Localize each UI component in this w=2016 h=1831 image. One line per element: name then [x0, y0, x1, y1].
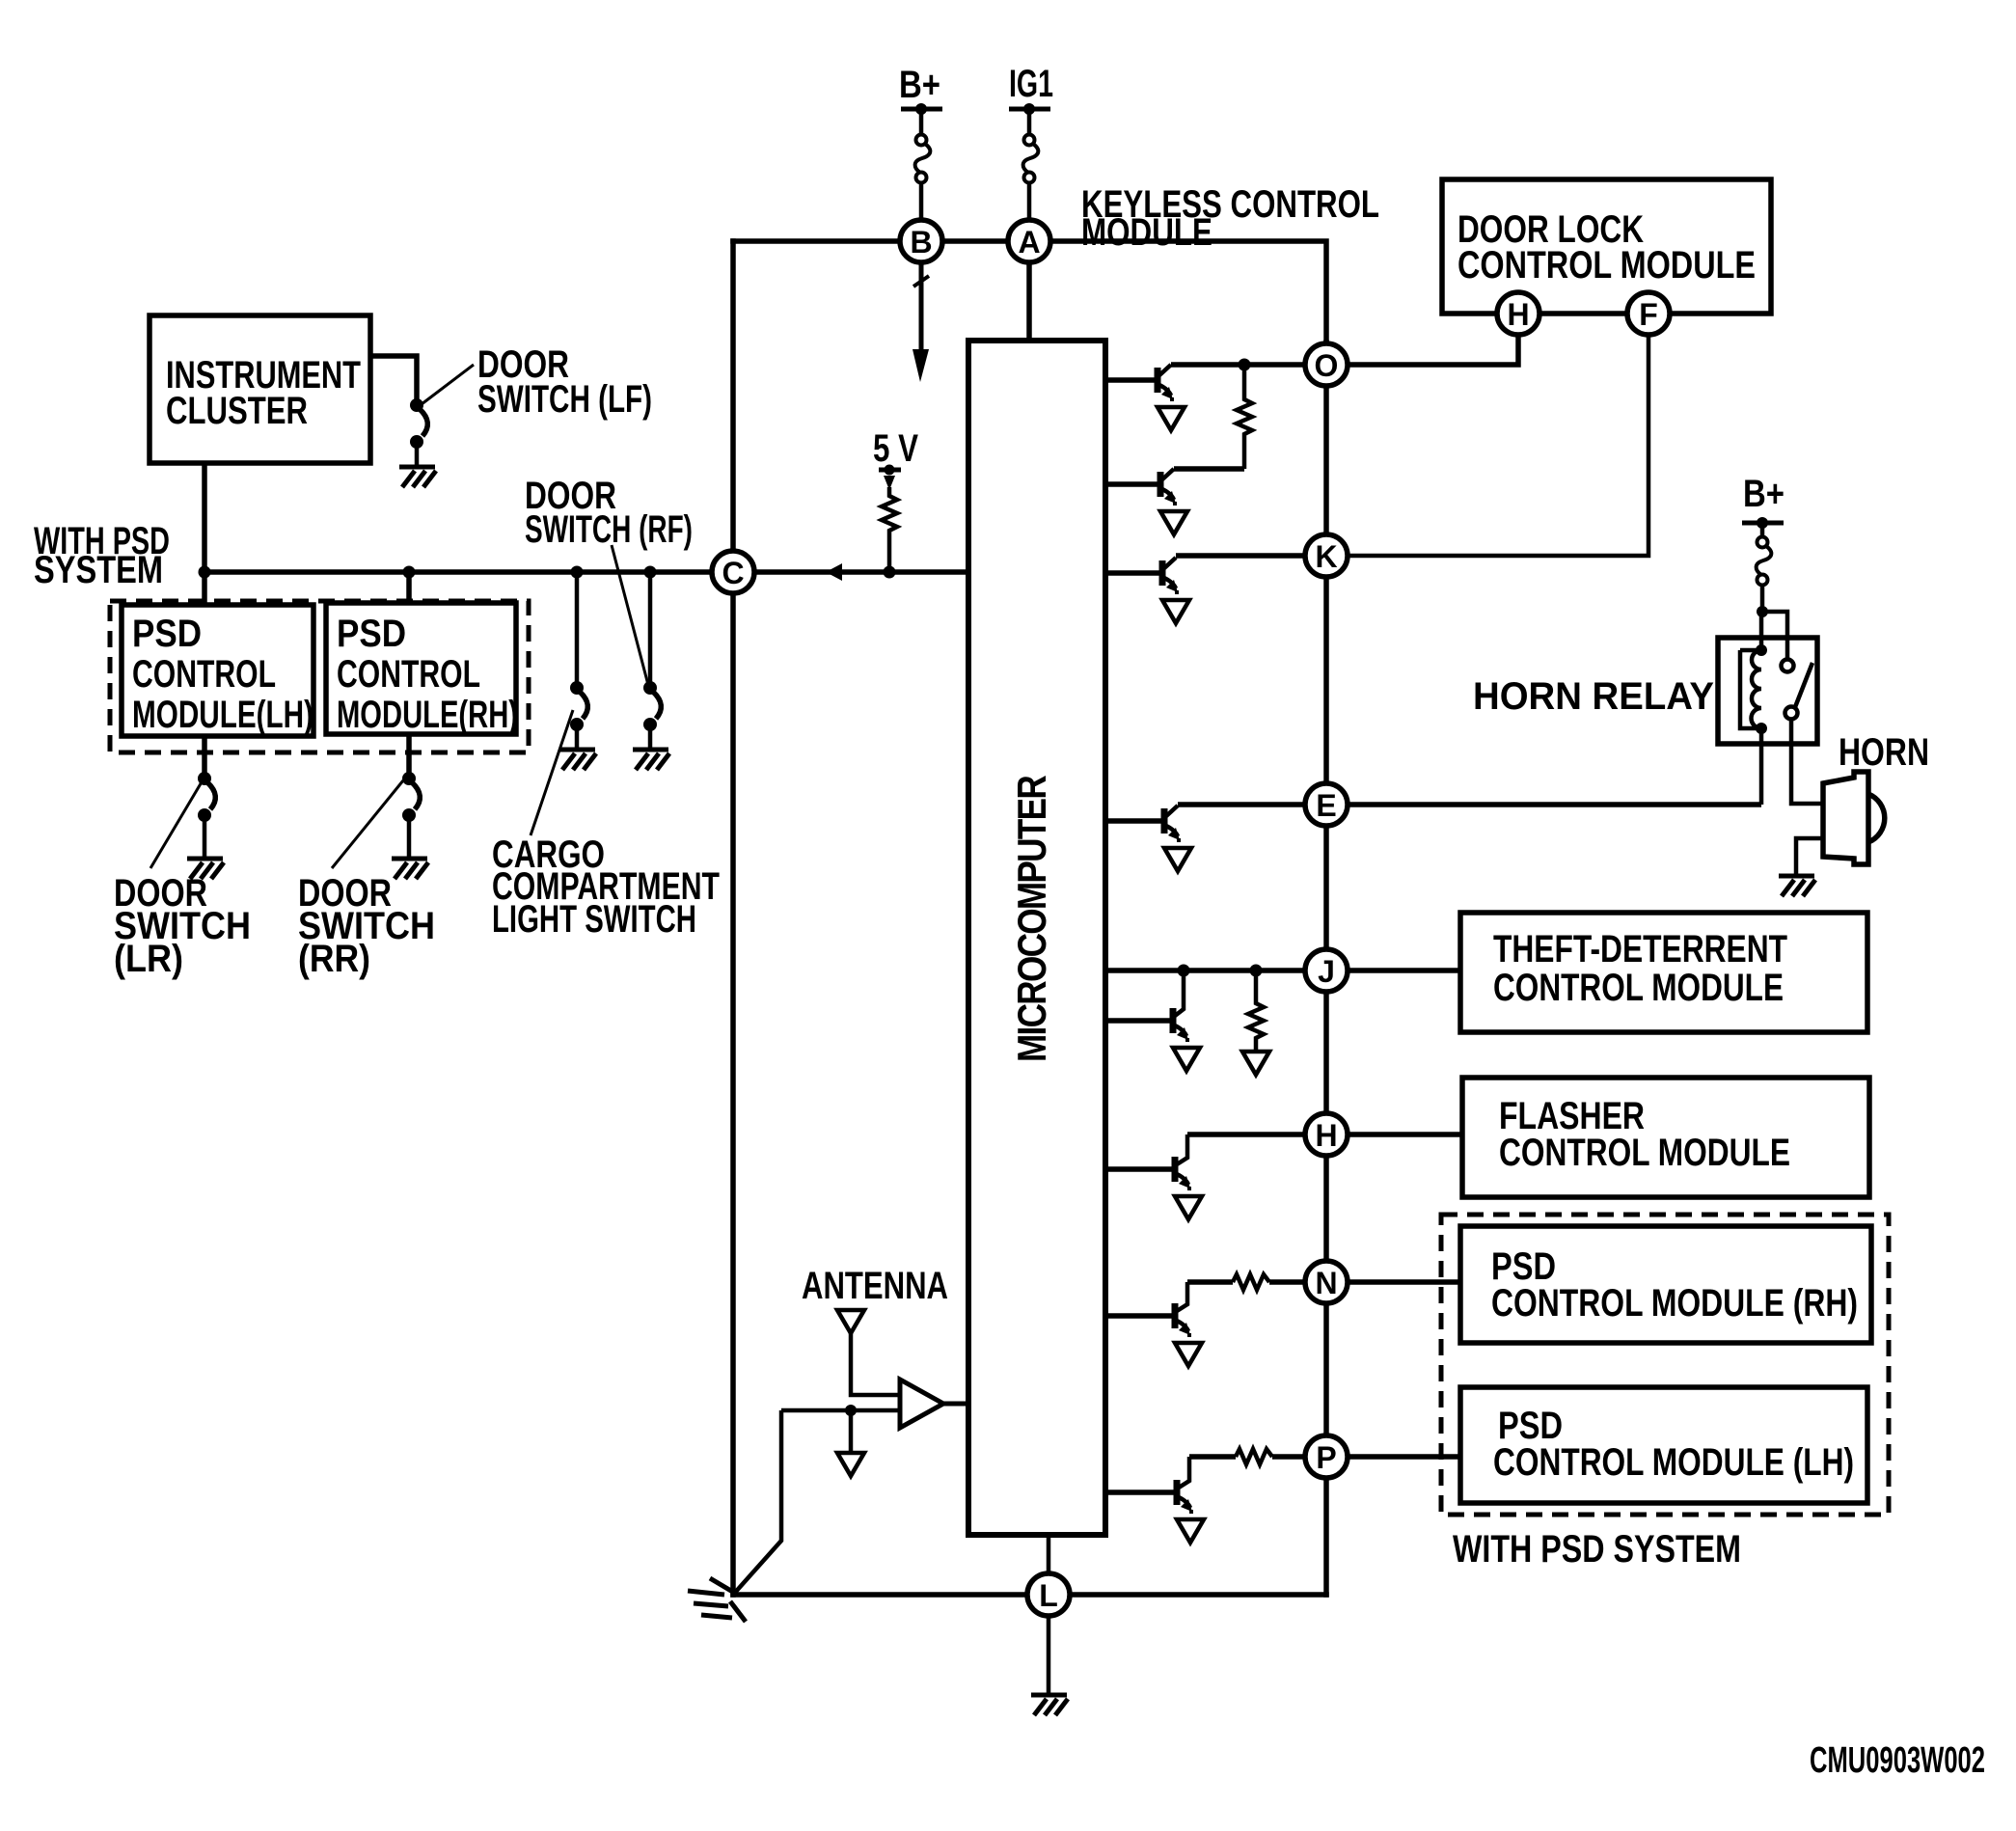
- node J: [1305, 949, 1348, 992]
- node O: [1305, 343, 1348, 386]
- wire: fuse to node B: [919, 182, 924, 241]
- junction dot J line right: [1250, 965, 1263, 977]
- wire: E row line to relay coil: [1326, 802, 1761, 807]
- wire: Q2 collector to R1 bottom: [1174, 466, 1244, 472]
- relay coil L1: [1740, 650, 1761, 728]
- flasher control module box: [1462, 1078, 1869, 1197]
- svg-text:IG1: IG1: [1009, 63, 1053, 105]
- junction dot C line (5V): [884, 566, 896, 579]
- wire: P row to PSD LH module: [1326, 1454, 1460, 1460]
- signal ground (R2): [1242, 1052, 1269, 1075]
- wire: antenna to amplifier: [851, 1333, 900, 1395]
- svg-text:L: L: [1039, 1578, 1058, 1613]
- junction dot C line (instrument cluster): [199, 566, 211, 579]
- direction arrow on C line: [826, 563, 842, 581]
- microcomputer U1 box: [968, 341, 1105, 1535]
- svg-text:(RR): (RR): [298, 938, 370, 980]
- 5 V terminal: [879, 468, 901, 473]
- wire: Q7 collector to resistor R3: [1187, 1279, 1233, 1285]
- relay switch contacts: [1782, 660, 1794, 672]
- PSD control module RH box (right): [1460, 1226, 1871, 1343]
- junction dot C line (PSD RH): [403, 566, 416, 579]
- resistor R2 (J row pulldown): [1248, 970, 1264, 1052]
- wire: Q6 collector to node H: [1187, 1132, 1304, 1137]
- svg-text:CONTROL MODULE (RH): CONTROL MODULE (RH): [1491, 1282, 1858, 1325]
- wire: horn to ground: [1796, 838, 1823, 874]
- resistor R5 (5V pull-up): [882, 487, 897, 572]
- transistor Q1 (O row, upper): [1105, 365, 1173, 401]
- ground (node L): [1031, 1695, 1068, 1715]
- signal ground (Q2 emitter): [1160, 511, 1187, 534]
- wire: input stub to signal ground: [849, 1410, 854, 1453]
- svg-text:(LR): (LR): [114, 938, 183, 980]
- svg-text:F: F: [1639, 297, 1658, 332]
- wire: K row to door lock F: [1326, 314, 1648, 556]
- node C: [712, 551, 754, 593]
- junction dot C line (cargo switch): [571, 566, 584, 579]
- svg-text:CONTROL MODULE: CONTROL MODULE: [1458, 244, 1756, 287]
- wire: node B output arrow down: [919, 262, 924, 349]
- svg-text:CONTROL MODULE: CONTROL MODULE: [1499, 1132, 1790, 1174]
- B+ terminal (top): [901, 107, 942, 112]
- wire: C line into PSD RH: [406, 572, 412, 603]
- svg-text:WITH PSD SYSTEM: WITH PSD SYSTEM: [1453, 1528, 1741, 1571]
- node F (door lock): [1627, 292, 1670, 335]
- wire: top feed line from left bus through B and A to right bus corner: [733, 241, 1326, 342]
- signal ground (Q5 emitter): [1173, 1048, 1200, 1071]
- transistor Q3 (K row): [1105, 558, 1178, 594]
- pointer line to cargo switch: [531, 710, 573, 835]
- chassis ground (bottom left): [688, 1578, 746, 1622]
- wire: C line down to door switch RF: [648, 572, 653, 682]
- svg-text:K: K: [1315, 539, 1337, 574]
- svg-text:O: O: [1315, 348, 1339, 383]
- pointer line to LR switch: [150, 780, 203, 868]
- wire: instrument cluster right to door switch LF: [370, 356, 417, 399]
- wire: R3 to node N: [1269, 1279, 1304, 1285]
- signal ground (Q8 emitter): [1177, 1519, 1204, 1543]
- ground (door switch RF): [633, 750, 669, 770]
- fuse F1 (B+ feed): [915, 135, 931, 183]
- amplifier A1: [900, 1380, 943, 1428]
- svg-text:SWITCH (RF): SWITCH (RF): [525, 508, 693, 551]
- svg-text:MODULE: MODULE: [1081, 211, 1212, 254]
- svg-text:B+: B+: [1743, 473, 1784, 515]
- ground (door switch RR): [392, 859, 428, 879]
- svg-text:HORN RELAY: HORN RELAY: [1473, 675, 1714, 718]
- PSD control module LH box (right): [1460, 1387, 1867, 1503]
- cargo compartment light switch: [570, 681, 584, 695]
- svg-text:5 V: 5 V: [873, 427, 918, 470]
- svg-text:N: N: [1315, 1266, 1337, 1300]
- wire: node L to ground: [1047, 1595, 1051, 1693]
- wire: branch to relay switch contact: [1762, 612, 1787, 660]
- svg-text:LIGHT SWITCH: LIGHT SWITCH: [492, 898, 696, 941]
- theft-deterrent control module box: [1460, 913, 1867, 1032]
- horn relay box: [1718, 638, 1817, 744]
- pointer line to RR switch: [332, 780, 403, 868]
- svg-text:THEFT-DETERRENT: THEFT-DETERRENT: [1493, 928, 1787, 970]
- resistor R4 (P row, horizontal): [1236, 1449, 1272, 1464]
- svg-text:B: B: [910, 225, 932, 260]
- wire: fuse to node A: [1027, 182, 1032, 241]
- svg-text:MODULE(LH): MODULE(LH): [132, 694, 313, 736]
- dashed box with PSD system (right): [1441, 1215, 1889, 1515]
- wire: Q8 collector to resistor R4: [1189, 1454, 1236, 1460]
- signal ground (amplifier input): [837, 1453, 864, 1476]
- svg-text:H: H: [1507, 297, 1529, 332]
- signal ground (Q1 emitter): [1158, 407, 1185, 430]
- ground (cargo switch): [559, 750, 596, 770]
- wire: Q4 collector to node E: [1178, 802, 1304, 807]
- svg-text:CONTROL: CONTROL: [132, 653, 276, 696]
- svg-text:SWITCH (LF): SWITCH (LF): [477, 378, 652, 421]
- node E: [1305, 783, 1348, 826]
- dashed box with PSD system (left): [110, 601, 529, 752]
- svg-text:SYSTEM: SYSTEM: [34, 549, 163, 591]
- wire: node A down to microcomputer: [1026, 241, 1032, 341]
- transistor Q7 (N row): [1105, 1282, 1190, 1337]
- svg-text:H: H: [1315, 1118, 1337, 1153]
- IG1 terminal (top): [1009, 107, 1050, 112]
- wire: J row line from microcomputer to node J: [1105, 968, 1304, 973]
- node H (door lock): [1497, 292, 1539, 335]
- wire: C line into PSD LH: [202, 572, 207, 605]
- wire: amplifier lower input from ground riser: [781, 1408, 900, 1413]
- fuse F3 (horn feed): [1757, 537, 1772, 586]
- door switch RF: [643, 681, 657, 695]
- node B: [900, 220, 942, 262]
- transistor Q6 (H row): [1105, 1134, 1190, 1190]
- resistor R3 (N row, horizontal): [1233, 1274, 1269, 1290]
- svg-text:MODULE(RH): MODULE(RH): [337, 694, 518, 736]
- junction dot on O line: [1239, 359, 1251, 371]
- svg-text:HORN: HORN: [1839, 731, 1929, 774]
- ground (horn): [1779, 876, 1815, 896]
- door switch LR: [198, 772, 211, 785]
- wire: right vertical bus through O K E J H N P: [1323, 342, 1329, 1595]
- node H: [1305, 1113, 1348, 1156]
- PSD control module RH box: [326, 603, 516, 734]
- svg-text:CMU0903W002: CMU0903W002: [1810, 1740, 1985, 1781]
- wire: PSD LH down to door switch LR: [202, 736, 207, 773]
- transistor Q2 (O row, lower): [1105, 469, 1176, 506]
- svg-text:PSD: PSD: [337, 613, 406, 655]
- resistor R1 (between O line and Q2 collector): [1237, 365, 1252, 469]
- junction dot on amplifier input: [845, 1405, 857, 1416]
- junction dot above horn relay: [1757, 606, 1768, 617]
- junction dot J line left: [1178, 965, 1190, 977]
- node P: [1305, 1435, 1348, 1478]
- wire: relay coil to E row: [1759, 728, 1764, 805]
- wire: H row to flasher module: [1326, 1132, 1462, 1137]
- svg-text:P: P: [1316, 1440, 1336, 1475]
- wire: microcomputer bottom to node L: [1047, 1535, 1051, 1595]
- wire: Q3 collector to node K: [1176, 553, 1304, 559]
- signal ground (Q3 emitter): [1162, 600, 1189, 623]
- wire: Q1 collector to node O with junction: [1171, 362, 1304, 368]
- signal ground (Q4 emitter): [1164, 848, 1191, 871]
- node K: [1305, 534, 1348, 577]
- svg-text:CONTROL: CONTROL: [337, 653, 480, 696]
- svg-text:CONTROL MODULE: CONTROL MODULE: [1493, 967, 1784, 1009]
- pointer line to LF switch: [422, 365, 474, 404]
- wire: relay switch to horn: [1791, 720, 1823, 804]
- wire: branch to relay coil: [1759, 612, 1764, 650]
- wire: PSD RH down to door switch RR: [406, 734, 412, 773]
- ground (door switch LF): [399, 467, 436, 487]
- transistor Q5 (J row): [1105, 970, 1188, 1042]
- pointer line to RF switch: [612, 545, 648, 685]
- wire: left vertical bus from top line down through C to bottom ground junction: [730, 241, 736, 1595]
- svg-text:CLUSTER: CLUSTER: [166, 390, 308, 432]
- node N: [1305, 1261, 1348, 1303]
- signal ground (Q6 emitter): [1175, 1196, 1202, 1219]
- svg-text:J: J: [1318, 954, 1335, 989]
- svg-text:B+: B+: [899, 64, 940, 106]
- svg-text:ANTENNA: ANTENNA: [802, 1265, 948, 1307]
- node L: [1027, 1573, 1070, 1616]
- svg-text:E: E: [1316, 788, 1336, 823]
- wire: fuse to relay: [1760, 585, 1765, 612]
- svg-text:MICROCOMPUTER: MICROCOMPUTER: [1009, 776, 1054, 1062]
- node A: [1008, 220, 1050, 262]
- horn speaker symbol: [1823, 772, 1885, 864]
- wire: amplifier output to microcomputer: [943, 1402, 968, 1407]
- wire: O row to door lock H: [1326, 314, 1518, 365]
- door switch LF: [410, 398, 423, 412]
- wire: C line down to cargo compartment light switch: [575, 572, 580, 682]
- door switch RR: [402, 772, 416, 785]
- fuse F2 (IG1 feed): [1023, 135, 1039, 183]
- junction dot C line (door switch RF): [644, 566, 657, 579]
- svg-text:PSD: PSD: [132, 613, 202, 655]
- svg-text:C: C: [722, 556, 744, 590]
- instrument cluster box: [150, 315, 370, 463]
- svg-text:CONTROL MODULE (LH): CONTROL MODULE (LH): [1493, 1441, 1854, 1484]
- signal ground (Q7 emitter): [1175, 1343, 1202, 1366]
- ground (door switch LR): [187, 859, 224, 879]
- wire: N row to PSD RH module: [1326, 1279, 1460, 1285]
- wire: R4 to node P: [1272, 1454, 1304, 1460]
- PSD control module LH box: [122, 605, 313, 736]
- wire: B+ to fuse: [919, 109, 924, 135]
- wire: bottom ground line from junction through L to right bus: [733, 1592, 1326, 1598]
- svg-text:A: A: [1018, 225, 1040, 260]
- wire: C row line from instrument cluster junction to microcomputer: [204, 569, 968, 575]
- transistor Q4 (E row): [1105, 806, 1180, 842]
- wire: IG1 to fuse: [1027, 109, 1032, 135]
- wire: riser down to chassis ground: [733, 1410, 781, 1595]
- wire: J row to theft-deterrent module: [1326, 968, 1460, 973]
- transistor Q8 (P row): [1105, 1457, 1192, 1514]
- wire: instrument cluster down to C line: [202, 463, 207, 572]
- antenna symbol: [837, 1310, 864, 1333]
- door lock control module box: [1442, 179, 1771, 314]
- wire: B+ down to fuse: [1760, 523, 1765, 537]
